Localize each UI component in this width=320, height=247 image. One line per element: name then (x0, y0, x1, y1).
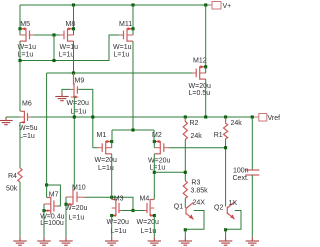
wire M2 drain to R2/R3 junction (154, 171, 185, 173)
svg-text:W=20u: W=20u (95, 157, 117, 164)
transistor M11 (PMOS W=1u L=1u, mirrored) (113, 21, 133, 58)
svg-text:50k: 50k (6, 186, 18, 193)
node M1 source junction (110, 140, 113, 143)
svg-text:W=5u: W=5u (19, 125, 38, 132)
ground below Cext (246, 237, 259, 245)
transistor M2 (PMOS W=20u L=1u) (148, 132, 170, 172)
wire rail to M8 source (73, 5, 75, 29)
node A junction at M8 drain / M9 (72, 71, 75, 74)
wire M7 source to ground (43, 211, 45, 237)
node output at Cext branch (251, 115, 254, 118)
svg-text:24k: 24k (231, 120, 243, 127)
wire M1 bulk stub (111, 142, 113, 148)
node junction on rail above M8 (72, 3, 75, 6)
svg-text:W=1u: W=1u (60, 44, 79, 51)
wire M2 bulk stub (153, 142, 155, 148)
node at M3 drain (110, 196, 113, 199)
svg-text:M4: M4 (140, 196, 150, 203)
port Vref (259, 114, 267, 122)
svg-text:L=1u: L=1u (150, 165, 166, 172)
svg-text:Vref: Vref (268, 115, 281, 122)
wire R2 bottom to R3 (184, 140, 186, 181)
wire Vref node down to Cext (251, 117, 253, 170)
transistor Q2 (1X) (214, 200, 237, 219)
wire M8 drain down to node A (73, 41, 75, 73)
svg-text:L=1u: L=1u (114, 51, 130, 58)
wire M3 source to ground (111, 216, 113, 237)
node output at M9 gate / M1 gate riser (91, 115, 94, 118)
svg-text:R1: R1 (214, 132, 223, 139)
svg-text:W=20u: W=20u (148, 157, 170, 164)
node bias line at M5 drain (18, 59, 21, 62)
svg-text:24X: 24X (193, 200, 206, 207)
ground at M9 gate (55, 92, 68, 100)
wire Q2 emitter loop to ground leg (226, 211, 241, 230)
resistor R4 50k (18, 168, 22, 182)
svg-text:Q2: Q2 (214, 205, 223, 212)
wire M10 bulk stub (65, 197, 67, 204)
svg-text:W=20u: W=20u (65, 205, 87, 212)
node tail tee (131, 128, 134, 131)
svg-text:M5: M5 (20, 21, 30, 28)
wire M2 drain down to M4 (153, 154, 155, 200)
transistor M1 (PMOS W=20u L=1u, mirrored) (95, 132, 117, 172)
svg-text:L=1u: L=1u (19, 133, 35, 140)
wire rail to M12 source (205, 5, 207, 67)
wire M7 gate loop (47, 185, 61, 206)
node gate bus tee (52, 33, 55, 36)
svg-text:V+: V+ (223, 3, 232, 10)
transistor M4 (W=20u L=1u, mirrored) (137, 196, 159, 235)
svg-text:Cext.: Cext. (233, 175, 249, 182)
wire M1 drain down to M3 (111, 154, 113, 200)
wire M5 bulk stub (19, 29, 21, 35)
node output at R2 top (184, 115, 187, 118)
node M11 source junction (131, 27, 134, 30)
transistor M5 (PMOS W=1u L=1u) (18, 21, 37, 58)
wire M4 source to ground (153, 216, 155, 237)
svg-text:W=1u: W=1u (113, 44, 132, 51)
wire bias node down to M6 drain (19, 61, 21, 112)
transistor M7 (W=0.4u L=100u) (40, 191, 64, 227)
svg-text:M6: M6 (22, 100, 32, 107)
svg-text:M10: M10 (72, 185, 86, 192)
wire output net Vref (M6 gate to Vref port) (31, 116, 253, 118)
ground below Q1 (179, 237, 192, 245)
svg-text:M12: M12 (193, 58, 207, 65)
ground below M4 (148, 237, 161, 245)
wire M10 source to ground (65, 204, 67, 237)
node output at M9 source / M10 drain (73, 115, 76, 118)
node Q1 ground junction (184, 228, 187, 231)
node M3 source junction (110, 214, 113, 217)
wire M9 source down to M10 drain (73, 97, 75, 190)
node output at R1 top (224, 115, 227, 118)
wire M7 branch down from node A (46, 73, 48, 185)
wire Cext to ground (251, 175, 253, 237)
wire M7 drain from junction (46, 185, 48, 198)
wire tail right leg to M2 source (153, 130, 155, 142)
svg-text:3.85k: 3.85k (191, 188, 209, 195)
svg-text:R2: R2 (190, 120, 199, 127)
svg-text:M9: M9 (75, 78, 85, 85)
svg-text:24k: 24k (191, 133, 203, 140)
svg-text:L=0.5u: L=0.5u (189, 90, 211, 97)
wire M9 bulk to ground (62, 89, 71, 92)
wire M12 drain down to output line (205, 79, 207, 117)
node M5 source junction (18, 27, 21, 30)
transistor M3 (W=20u L=1u) (107, 196, 129, 236)
node R2/R3 junction with M2 drain (184, 171, 187, 174)
wire bias line (M5 drain to M11 gate riser) (20, 35, 119, 61)
node output at M12 drain (204, 115, 207, 118)
wire top V+ rail (20, 4, 209, 6)
svg-text:M11: M11 (119, 21, 132, 28)
resistor R1 24k (224, 118, 228, 139)
svg-text:L=1u: L=1u (71, 108, 87, 115)
wire M12 bulk stub (205, 67, 207, 73)
svg-text:R3: R3 (191, 180, 200, 187)
ground below Q2 (219, 237, 232, 245)
svg-text:W=20u: W=20u (67, 100, 89, 107)
wire node A line (M8 drain / M9 source to M12 gate, via M7 branch corner) (47, 72, 193, 74)
ground below M3 (105, 237, 118, 245)
svg-text:L=1u: L=1u (69, 214, 85, 221)
capacitor Cext 100n (245, 170, 259, 175)
wire left rail from V+ to M5 source (19, 5, 21, 29)
wire Q2 to ground (225, 229, 227, 237)
svg-text:W=20u: W=20u (107, 219, 129, 226)
wire M3 gate to M4 gate (122, 210, 144, 212)
ground below R4 (13, 237, 26, 245)
ground below M10 (59, 237, 72, 245)
svg-text:W=20u: W=20u (189, 83, 211, 90)
wire M6 bulk to ground (6, 116, 20, 118)
node bias line at gate bus (52, 59, 55, 62)
wire tail left leg to M1 source (111, 130, 113, 142)
svg-text:Q1: Q1 (174, 204, 183, 211)
wire M9 gate to M1 gate riser (79, 89, 93, 147)
transistor Q1 (24X) (174, 200, 205, 220)
wire R4 to ground (19, 182, 21, 237)
node junction on rail above M11 (131, 3, 134, 6)
wire M1 gate from riser (93, 147, 98, 149)
node M2 source junction (153, 140, 156, 143)
node M3/M4 gate junction (131, 209, 134, 212)
port V+ (212, 2, 221, 10)
svg-text:L=1u: L=1u (111, 228, 127, 235)
node junction on rail above M12 (204, 3, 207, 6)
svg-text:L=1u: L=1u (59, 51, 75, 58)
wire M8 bulk stub (73, 29, 75, 35)
wire M10 gate to M3 drain and mirror riser (85, 197, 134, 210)
resistor R3 3.85k (183, 181, 187, 199)
transistor M6 (W=5u L=1u) (19, 100, 38, 140)
node M12 source junction (204, 65, 207, 68)
node R1 bottom / M2 gate (224, 146, 227, 149)
wire Q1 to ground (184, 229, 186, 237)
resistor R2 24k (183, 118, 187, 140)
svg-text:M2: M2 (152, 132, 162, 139)
svg-text:100n: 100n (233, 168, 249, 175)
wire R3 to Q1 (184, 198, 186, 208)
wire M11 bulk stub (132, 29, 134, 35)
wire M6 source down to R4 (19, 122, 21, 168)
ground at M6 bulk (0, 117, 13, 125)
svg-text:M7: M7 (49, 191, 59, 198)
node M7 branch junction (45, 183, 48, 186)
transistor M10 (W=20u L=1u) (65, 185, 87, 222)
svg-text:1X: 1X (229, 200, 238, 207)
transistor M8 (PMOS W=1u L=1u, mirrored) (59, 21, 79, 58)
transistor M12 (PMOS W=20u L=0.5u, mirrored) (189, 58, 211, 97)
svg-text:W=20u: W=20u (137, 219, 159, 226)
wire M2 gate to R1 bottom (168, 147, 225, 149)
wire gate bus M5-M8 (34, 34, 60, 36)
ground below M7 (37, 237, 50, 245)
node Q2 ground junction (224, 228, 227, 231)
svg-text:R4: R4 (8, 173, 17, 180)
svg-text:M1: M1 (97, 132, 107, 139)
svg-text:M3: M3 (114, 196, 124, 203)
node M10 source junction (64, 203, 67, 206)
wire R1 bottom to Q2 (225, 139, 227, 207)
transistor M9 (PMOS W=20u L=1u, rotated) (67, 73, 89, 115)
node M4 source junction (153, 214, 156, 217)
wire rail to M11 source (132, 5, 134, 29)
node M2 drain tee to R3 (153, 171, 156, 174)
node M8 source junction (72, 27, 75, 30)
wire M5 drain down to bias node (19, 41, 21, 60)
wire tail tee from M11 drain to diff pair sources (112, 129, 154, 131)
wire Q1 emitter loop to ground leg (185, 211, 204, 230)
wire M11 drain down to tail node (132, 41, 134, 130)
wire gate bus down to bias line (53, 35, 55, 61)
